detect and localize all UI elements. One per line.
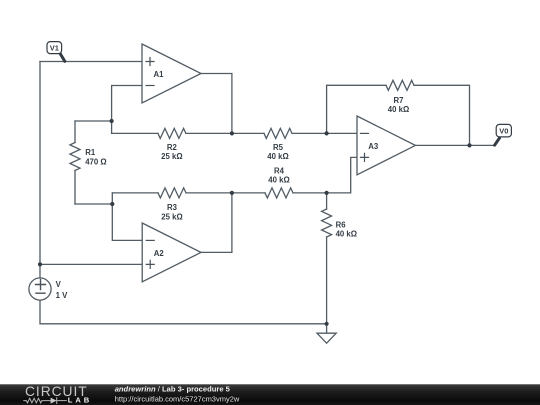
resistor R5 40 kohm: [264, 128, 292, 138]
ground symbol: [317, 333, 336, 343]
op-amp A2: [142, 223, 201, 282]
svg-text:V1: V1: [50, 44, 59, 53]
svg-text:40 kΩ: 40 kΩ: [388, 105, 409, 114]
svg-text:V0: V0: [499, 127, 508, 136]
svg-text:R3: R3: [167, 203, 178, 212]
wire left vertical (V source to top rail): [39, 62, 41, 278]
junction node A3 inverting: [325, 131, 329, 135]
wire R3 to node: [186, 192, 265, 194]
wire R7 to output node: [414, 85, 470, 145]
svg-text:R7: R7: [394, 96, 404, 105]
label R4 value: [268, 166, 289, 184]
junction node output: [467, 143, 471, 147]
label R2 value: [161, 143, 182, 161]
CircuitLab logo schematic line (resistor + diode): [24, 398, 67, 404]
svg-text:R6: R6: [336, 220, 347, 229]
op-amp A3: [357, 116, 415, 175]
wire A3 output to V0: [415, 144, 494, 146]
junction node A1 output: [230, 131, 234, 135]
wire A1 inverting input feedback: [112, 86, 142, 134]
junction node A2 output: [230, 191, 234, 195]
svg-text:470 Ω: 470 Ω: [85, 157, 106, 166]
wire R7 feedback loop: [327, 85, 386, 133]
wire row1 left segment: [112, 132, 158, 134]
svg-text:25 kΩ: 25 kΩ: [161, 213, 182, 222]
label R6 value: [336, 220, 357, 238]
svg-text:1 V: 1 V: [56, 291, 69, 300]
wire V1 to A1 noninverting input: [40, 61, 142, 63]
junction node A2 plus tap: [38, 262, 42, 266]
wire R3 corner to A2 inverting input: [112, 193, 142, 241]
junction node R1 bottom: [110, 202, 114, 206]
op-amp A1: [142, 44, 201, 103]
node flag V0: [495, 124, 512, 145]
CircuitLab logo diode triangle: [51, 398, 57, 404]
resistor R1 470 ohm: [70, 121, 80, 204]
wire R4 to A3 noninverting input: [293, 157, 357, 193]
svg-text:25 kΩ: 25 kΩ: [161, 152, 182, 161]
wire row2 left segment: [112, 192, 158, 194]
node flag V1: [47, 42, 65, 62]
resistor R4 40 kohm: [265, 188, 293, 198]
label R5 value: [267, 143, 288, 161]
svg-text:A1: A1: [154, 70, 165, 79]
svg-text:R4: R4: [274, 166, 285, 175]
resistor R6 40 kohm vertical: [322, 193, 332, 324]
svg-text:R5: R5: [273, 143, 284, 152]
label R1 value: [85, 148, 106, 166]
resistor R3 25 kohm: [158, 188, 186, 198]
svg-text:R1: R1: [85, 148, 96, 157]
wire A2 noninverting input from left rail: [40, 263, 142, 265]
junction node R6 top: [325, 191, 329, 195]
footer bar: [0, 384, 540, 405]
label R3 value: [161, 203, 182, 221]
resistor R7 40 kohm: [386, 80, 414, 90]
svg-text:R2: R2: [167, 143, 178, 152]
ground stem: [326, 324, 328, 333]
wire bottom rail: [40, 300, 327, 324]
svg-text:http://circuitlab.com/c5727cm3: http://circuitlab.com/c5727cm3vmy2w: [115, 394, 240, 403]
junction node R1 top: [110, 119, 114, 123]
svg-text:A2: A2: [154, 249, 165, 258]
wire A2 output up to node: [201, 193, 232, 253]
resistor R2 25 kohm: [158, 128, 186, 138]
svg-text:V: V: [56, 280, 62, 289]
wire R5 to A3 inverting input: [292, 132, 357, 134]
label R7 value: [388, 96, 409, 114]
wire R2 to node: [186, 132, 264, 134]
svg-text:40 kΩ: 40 kΩ: [268, 176, 289, 185]
svg-text:40 kΩ: 40 kΩ: [267, 152, 288, 161]
svg-text:A3: A3: [368, 142, 379, 151]
wire R1 top connection: [75, 120, 112, 122]
wire A1 output down to node: [201, 74, 232, 134]
junction node ground: [325, 322, 329, 326]
wire R1 bottom connection: [75, 203, 112, 205]
svg-text:andrewrinn / Lab 3- procedure: andrewrinn / Lab 3- procedure 5: [115, 385, 231, 394]
svg-text:40 kΩ: 40 kΩ: [336, 230, 357, 239]
svg-text:LAB: LAB: [68, 396, 92, 405]
voltage source V 1V: [29, 278, 68, 300]
